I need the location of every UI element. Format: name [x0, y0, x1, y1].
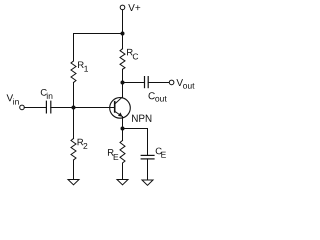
wire CE to ground [147, 159, 149, 180]
wire Vin to Cin [24, 107, 46, 109]
terminal Vin [20, 105, 25, 110]
ground under RE [117, 180, 128, 185]
label R1 [78, 61, 88, 71]
label CE [156, 148, 166, 158]
label NPN [132, 115, 151, 122]
node top junction [121, 32, 125, 36]
wire V+ down to top junction [122, 10, 124, 34]
node base junction [72, 106, 76, 110]
wire RE to ground [122, 166, 124, 180]
label V+ [128, 4, 140, 11]
node collector junction [121, 81, 125, 85]
wire emitter node to CE branch [123, 128, 148, 130]
wire Cin to base [51, 107, 115, 109]
wire base node down to R2 [73, 108, 75, 139]
wire top rail down to R1 [73, 34, 75, 62]
label Cout [149, 92, 167, 101]
resistor R1 [71, 61, 76, 83]
wire emitter node down to RE [122, 129, 124, 141]
resistor R2 [71, 139, 76, 161]
capacitor Cout [145, 77, 149, 88]
capacitor CE [141, 155, 154, 159]
wire collector node to Cout [123, 82, 145, 84]
ground under CE [142, 180, 153, 185]
label R2 [78, 139, 88, 149]
wire top rail to left branch [74, 33, 123, 35]
transistor Q1 NPN [110, 97, 131, 118]
wire R1 to base node [73, 83, 75, 108]
wire V+ rail down to RC [122, 34, 124, 49]
resistor RC [120, 49, 125, 70]
capacitor Cin [46, 101, 50, 113]
wire CE branch down [147, 129, 149, 156]
terminal V+ [120, 5, 125, 10]
label Vin [7, 94, 19, 104]
label Vout [176, 79, 194, 89]
wire RC to collector node [122, 69, 124, 97]
wire Cout to Vout terminal [148, 82, 169, 84]
label RC [127, 49, 138, 60]
node emitter junction [121, 127, 125, 131]
wire R2 to ground [73, 160, 75, 180]
label Cin [41, 89, 53, 99]
label RE [108, 149, 118, 160]
wire emitter down to emitter node [122, 117, 124, 129]
ground under R2 [68, 180, 79, 185]
resistor RE [120, 141, 125, 167]
terminal Vout [169, 80, 174, 85]
